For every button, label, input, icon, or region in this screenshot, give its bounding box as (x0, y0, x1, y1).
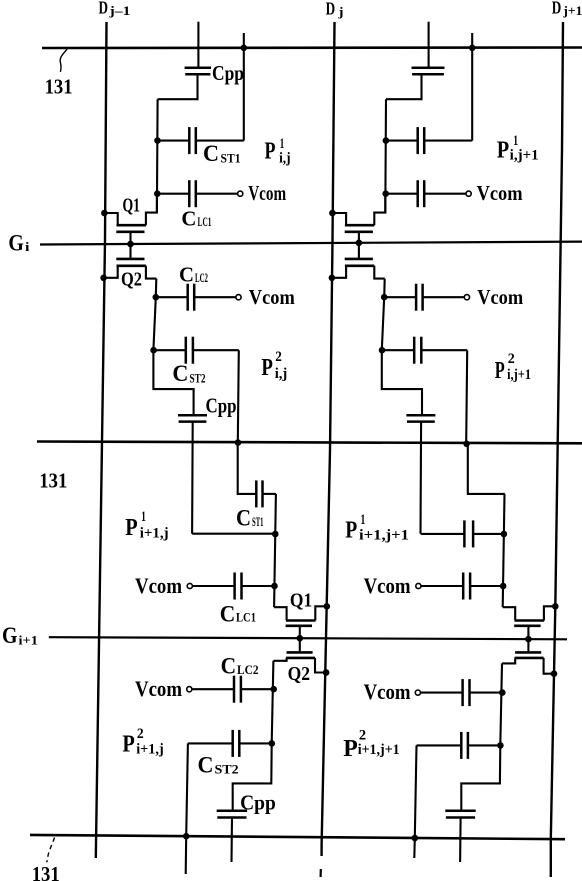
svg-text:D: D (326, 0, 336, 18)
svg-text:Q1: Q1 (123, 195, 141, 217)
transistor Q1 (Pi+1j+11) channel (515, 619, 545, 622)
wire: CST2 tap stub below line (Pi+1j2) (185, 836, 188, 874)
node Pij+12 storage junction (379, 347, 386, 354)
transistor Q1 (Pij+11) source wire (332, 213, 346, 225)
svg-text:P: P (265, 139, 276, 165)
wire: Cpp stub crossing middle line 131 (Pij+12) (419, 422, 422, 534)
svg-text:i+1,j+1: i+1,j+1 (358, 742, 400, 758)
capacitor CST1 (Pij1) (158, 140, 190, 142)
svg-text:i,j+1: i,j+1 (510, 148, 539, 164)
svg-text:2: 2 (137, 726, 144, 742)
transistor Q2 (Pi+1j+12) source wire (544, 658, 554, 674)
svg-text:Vcom: Vcom (249, 285, 295, 309)
junction: CST2 tap on bottom line (Pi+1j+12) (412, 835, 419, 842)
node Pi+1j2 LC junction (270, 686, 277, 693)
wire: Cpp bottom plate to node (Pij1) (158, 74, 198, 99)
transistor Q1 (Pij1) channel (117, 224, 146, 227)
junction: Q1 source on data line (Pij1) (101, 210, 108, 217)
transistor Q2 (Pi+1j2) gate bar (287, 651, 313, 654)
wire: Cpp continuation into node (Pi+1j1) (192, 533, 275, 535)
junction: storage taps on middle line 131 (col j) (463, 441, 470, 448)
junction: gate stub on Gi (Pij+1) (356, 239, 363, 246)
svg-text:P: P (343, 736, 358, 762)
svg-text:i: i (25, 239, 30, 254)
svg-text:i,j: i,j (279, 151, 291, 167)
svg-text:Cpp: Cpp (206, 394, 237, 418)
capacitor CST2 (Pij+12) (382, 349, 414, 351)
svg-text:C: C (236, 506, 251, 531)
node Pi+1j+11 LC junction (500, 583, 507, 590)
svg-text:1: 1 (361, 512, 366, 528)
node Pi+1j1 Cpp junction (272, 531, 279, 538)
wire: pixel node vertical (Pij1) (156, 99, 159, 212)
node Pij+11 LC junction (382, 190, 389, 197)
svg-text:2: 2 (275, 349, 282, 365)
node Pi+1j1 LC junction (271, 583, 278, 590)
svg-text:C: C (203, 141, 219, 166)
wire: CST1 tap from middle line (Pi+1j+11) (468, 443, 505, 494)
junction: Q1 source on data line (Pij+11) (329, 210, 336, 217)
transistor Q2 (Pij+12) gate bar (345, 258, 373, 261)
capacitor CST1 (Pi+1j1) (255, 480, 258, 507)
Vcom terminal (Pij1) (238, 191, 243, 196)
svg-text:Vcom: Vcom (135, 573, 182, 598)
data line Dj (322, 22, 335, 856)
capacitor CST2 (Pi+1j2) (239, 742, 271, 744)
transistor Q2 (Pij2) drain wire (146, 266, 156, 279)
svg-text:131: 131 (45, 75, 73, 99)
node Pij1 storage junction (154, 137, 161, 144)
transistor Q2 (Pi+1j2) drain wire (273, 658, 286, 661)
wire: CST1 tap from middle line (Pi+1j1) (238, 443, 257, 494)
transistor Q1 (Pi+1j1) drain wire (274, 607, 287, 620)
junction: Q2 source on data line (Pi+1j2) (323, 669, 330, 676)
transistor Q1 (Pi+1j1) channel (286, 619, 316, 622)
wire: Cpp stub crossing bottom line 131 (Pi+1j2) (230, 818, 233, 863)
svg-text:ST1: ST1 (221, 152, 241, 166)
svg-text:G: G (8, 231, 24, 256)
svg-text:i+1,j: i+1,j (140, 526, 169, 542)
junction: gate stub on Gi+1 (Pi+1j) (297, 635, 304, 642)
wire: pixel node vertical (Pi+1j+12) (500, 663, 502, 745)
svg-text:Vcom: Vcom (364, 679, 411, 704)
junction: Q2 source on data line (Pi+1j+12) (551, 670, 558, 677)
junction: CST2 tap on bottom line (Pi+1j2) (183, 833, 190, 840)
wire: pixel node vertical (Pi+1j+11) (503, 494, 505, 607)
transistor Q1/Q2 (Pi+1j) gate stub (299, 626, 301, 653)
svg-text:P: P (345, 518, 357, 544)
gate line Gi (40, 242, 582, 245)
wire: CST2 tap down to line 131 (Pij+12) (466, 350, 467, 442)
wire: row boundary line 131 (top) (42, 46, 582, 49)
wire: row boundary line 131 (bottom) (30, 835, 565, 839)
transistor Q2 (Pij+12) channel (345, 264, 374, 267)
svg-text:131: 131 (32, 862, 60, 881)
svg-text:Q2: Q2 (121, 269, 142, 291)
Vcom terminal (Pi+1j2) (187, 687, 192, 692)
capacitor CLC1 (Pi+1j1) (192, 585, 234, 587)
wire: CST1 tap to line 131 (Pij+11) (471, 33, 473, 141)
transistor Q1 (Pij+11) drain wire (374, 194, 385, 226)
capacitor CLC1 (Pi+1j+11) (421, 585, 463, 587)
node Pij2 storage junction (150, 347, 157, 354)
Vcom terminal (Pi+1j+12) (415, 690, 420, 695)
capacitor Cpp bottom (Pi+1j2) plates (217, 810, 247, 813)
svg-text:C: C (198, 753, 214, 778)
svg-text:LC1: LC1 (236, 611, 256, 625)
svg-text:j–1: j–1 (108, 3, 130, 18)
capacitor CLC2 (Pi+1j+12) (420, 692, 462, 694)
svg-text:j+1: j+1 (562, 3, 582, 18)
svg-text:P: P (261, 355, 273, 381)
svg-text:i+1: i+1 (19, 633, 39, 648)
capacitor Cpp (pixel Pij+11) plates (412, 66, 445, 69)
transistor Q2 (Pij2) source wire (104, 266, 118, 278)
svg-text:Vcom: Vcom (135, 676, 182, 701)
capacitor Cpp lower (Pij+12) plates (406, 414, 435, 417)
svg-text:P: P (495, 358, 505, 384)
Vcom terminal (Pij+12) (464, 295, 469, 300)
svg-text:C: C (181, 206, 196, 230)
wire: Dj stub below figure (320, 869, 322, 877)
transistor Q1 (Pi+1j+11) drain wire (503, 607, 516, 620)
svg-text:Q2: Q2 (288, 663, 310, 685)
junction: Q2 source on data line (Pij2) (100, 275, 107, 282)
svg-text:LC2: LC2 (195, 271, 208, 285)
node Pi+1j+11 Cpp junction (501, 531, 508, 538)
node Pi+1j+12 storage junction (497, 742, 504, 749)
capacitor CLC2 (Pi+1j2) (192, 688, 234, 690)
node Pij+11 storage junction (383, 137, 390, 144)
svg-text:LC1: LC1 (198, 215, 212, 229)
wire: CST2 tap down to line 131 (Pij2) (238, 350, 239, 442)
wire: pixel node vertical (Pi+1j1) (274, 494, 276, 607)
junction: CST1 tap on line 131 (Pij1) (241, 45, 248, 52)
transistor Q2 (Pi+1j2) channel (286, 657, 315, 660)
svg-text:Vcom: Vcom (477, 285, 523, 309)
transistor Q1 (Pi+1j+11) source wire (544, 606, 555, 620)
junction: Q1 source on data line (Pi+1j1) (324, 603, 331, 610)
svg-text:P: P (497, 138, 509, 164)
svg-text:P: P (125, 515, 137, 541)
wire: node to Cpp (Pij2) (153, 350, 193, 415)
junction: Q1 source on data line (Pi+1j+11) (552, 603, 559, 610)
wire: node to Cpp (Pi+1j2) (233, 743, 272, 810)
wire: pixel node vertical (Pi+1j2) (272, 661, 274, 744)
transistor Q1 (Pij+11) channel (345, 224, 374, 227)
wire: Cpp top plate stub crossing line 131 (Pij1) (197, 22, 199, 68)
transistor Q2 (Pi+1j2) source wire (315, 658, 326, 673)
junction: storage taps on middle line 131 (col j-1) (235, 439, 242, 446)
svg-text:Q1: Q1 (290, 589, 312, 611)
transistor Q2 (Pi+1j+12) gate bar (515, 651, 541, 654)
Vcom terminal (Pi+1j1) (187, 583, 192, 588)
svg-text:Vcom: Vcom (364, 573, 411, 598)
svg-text:D: D (99, 0, 109, 18)
svg-text:C: C (220, 601, 236, 626)
capacitor CLC1 (Pij1) (157, 193, 189, 195)
transistor Q1 (Pij1) drain wire (146, 194, 157, 226)
svg-text:ST2: ST2 (215, 763, 239, 777)
wire: pixel node vertical (Pij2) (153, 279, 156, 351)
transistor Q1 (Pij1) source wire (104, 213, 117, 225)
wire: pixel node vertical (Pij+12) (382, 279, 385, 351)
svg-text:D: D (552, 0, 562, 18)
transistor Q1 (Pij1) gate bar (116, 231, 144, 234)
svg-text:i,j: i,j (275, 366, 288, 382)
svg-text:Vcom: Vcom (248, 181, 286, 205)
wire: CST2 tap down to bottom line 131 (Pi+1j2) (186, 743, 188, 836)
svg-text:LC2: LC2 (237, 663, 259, 677)
Vcom terminal (Pi+1j+11) (416, 583, 421, 588)
wire: pixel node vertical (Pij+11) (384, 99, 387, 212)
svg-text:2: 2 (359, 727, 366, 743)
leader for 131 top (60, 49, 67, 72)
node Pi+1j+12 LC junction (499, 689, 506, 696)
capacitor CLC2 (Pij2) (156, 296, 188, 298)
transistor Q2 (Pi+1j+12) channel (515, 657, 544, 660)
capacitor CST2 (Pi+1j+12) (468, 744, 501, 746)
junction: gate stub on Gi (Pij) (127, 241, 134, 248)
wire: Cpp top plate stub crossing line 131 (Pij+11) (428, 22, 430, 68)
Vcom terminal (Pij2) (236, 295, 241, 300)
junction: Q2 source on data line (Pij+12) (329, 275, 336, 282)
Vcom terminal (Pij+11) (466, 191, 471, 196)
wire: CST2 tap stub below line (Pi+1j+12) (413, 838, 416, 858)
svg-text:C: C (172, 361, 188, 386)
svg-text:j: j (337, 4, 343, 19)
transistor Q1 (Pi+1j+11) gate bar (514, 624, 540, 627)
transistor Q2 (Pij+12) source wire (332, 266, 346, 278)
capacitor CLC2 (Pij+12) (384, 296, 416, 298)
svg-text:i+1,j+1: i+1,j+1 (359, 527, 409, 543)
node Pij1 LC junction (154, 190, 161, 197)
capacitor Cpp (pixel Pij1) plates (185, 66, 211, 69)
svg-text:C: C (221, 653, 237, 678)
gate line Gi+1 (49, 637, 567, 639)
capacitor Cpp lower (Pij2) plates (178, 414, 207, 417)
svg-text:ST2: ST2 (190, 372, 206, 386)
capacitor CST1 (Pij+11) (386, 140, 418, 142)
wire: Cpp stub crossing bottom line 131 (Pi+1j+12) (459, 818, 462, 863)
junction: gate stub on Gi+1 (Pi+1j+1) (525, 636, 532, 643)
svg-text:2: 2 (508, 351, 515, 367)
capacitor CLC1 (Pij+11) (386, 193, 418, 195)
node Pij+12 LC junction (381, 294, 388, 301)
wire: node to Cpp (Pij+12) (382, 350, 422, 415)
transistor Q1 (Pij+11) gate bar (345, 231, 373, 234)
leader for 131 bottom (47, 838, 55, 863)
svg-text:131: 131 (39, 468, 67, 492)
capacitor CST2 (Pij2) (154, 349, 186, 351)
svg-text:1: 1 (141, 509, 146, 525)
wire: Cpp stub crossing middle line 131 (Pij2) (191, 422, 194, 534)
wire: node to Cpp (Pi+1j+12) (461, 745, 500, 810)
data line Dj-1 (96, 22, 107, 858)
data line Dj+1 (551, 22, 563, 877)
transistor Q1 (Pi+1j1) source wire (315, 606, 327, 620)
svg-text:ST1: ST1 (252, 515, 264, 529)
svg-text:P: P (122, 732, 134, 758)
svg-text:Cpp: Cpp (240, 791, 276, 815)
svg-text:i+1,j: i+1,j (136, 741, 164, 757)
transistor Q1/Q2 (Pij) gate stub to Gi (129, 232, 131, 259)
transistor Q1/Q2 (Pi+1j+1) gate stub (527, 626, 529, 653)
node Pij2 LC junction (153, 294, 160, 301)
svg-text:G: G (2, 623, 18, 648)
wire: CST2 tap down to bottom line 131 (Pi+1j+12) (415, 745, 417, 838)
capacitor Cpp bottom (Pi+1j+12) plates (445, 810, 475, 813)
transistor Q2 (Pij2) gate bar (116, 258, 144, 261)
svg-text:i,j+1: i,j+1 (507, 367, 531, 383)
svg-text:Cpp: Cpp (212, 61, 244, 85)
transistor Q1/Q2 (Pij+1) gate stub to Gi (358, 232, 360, 259)
transistor Q2 (Pij+12) drain wire (374, 266, 384, 279)
transistor Q2 (Pi+1j+12) drain wire (502, 658, 515, 664)
svg-text:Vcom: Vcom (477, 181, 523, 205)
svg-text:C: C (179, 263, 194, 287)
capacitor CST1 (Pi+1j+11) (421, 533, 465, 535)
node Pi+1j2 storage junction (269, 740, 276, 747)
junction: CST1 tap on line 131 (Pij+11) (469, 45, 476, 52)
wire: Cpp bottom plate to node (Pij+11) (386, 74, 422, 99)
transistor Q1 (Pi+1j1) gate bar (286, 624, 312, 627)
wire: row boundary line 131 (middle) (37, 442, 582, 444)
wire: CST1 tap to line 131 (Pij1) (243, 33, 245, 141)
transistor Q2 (Pij2) channel (117, 264, 146, 267)
